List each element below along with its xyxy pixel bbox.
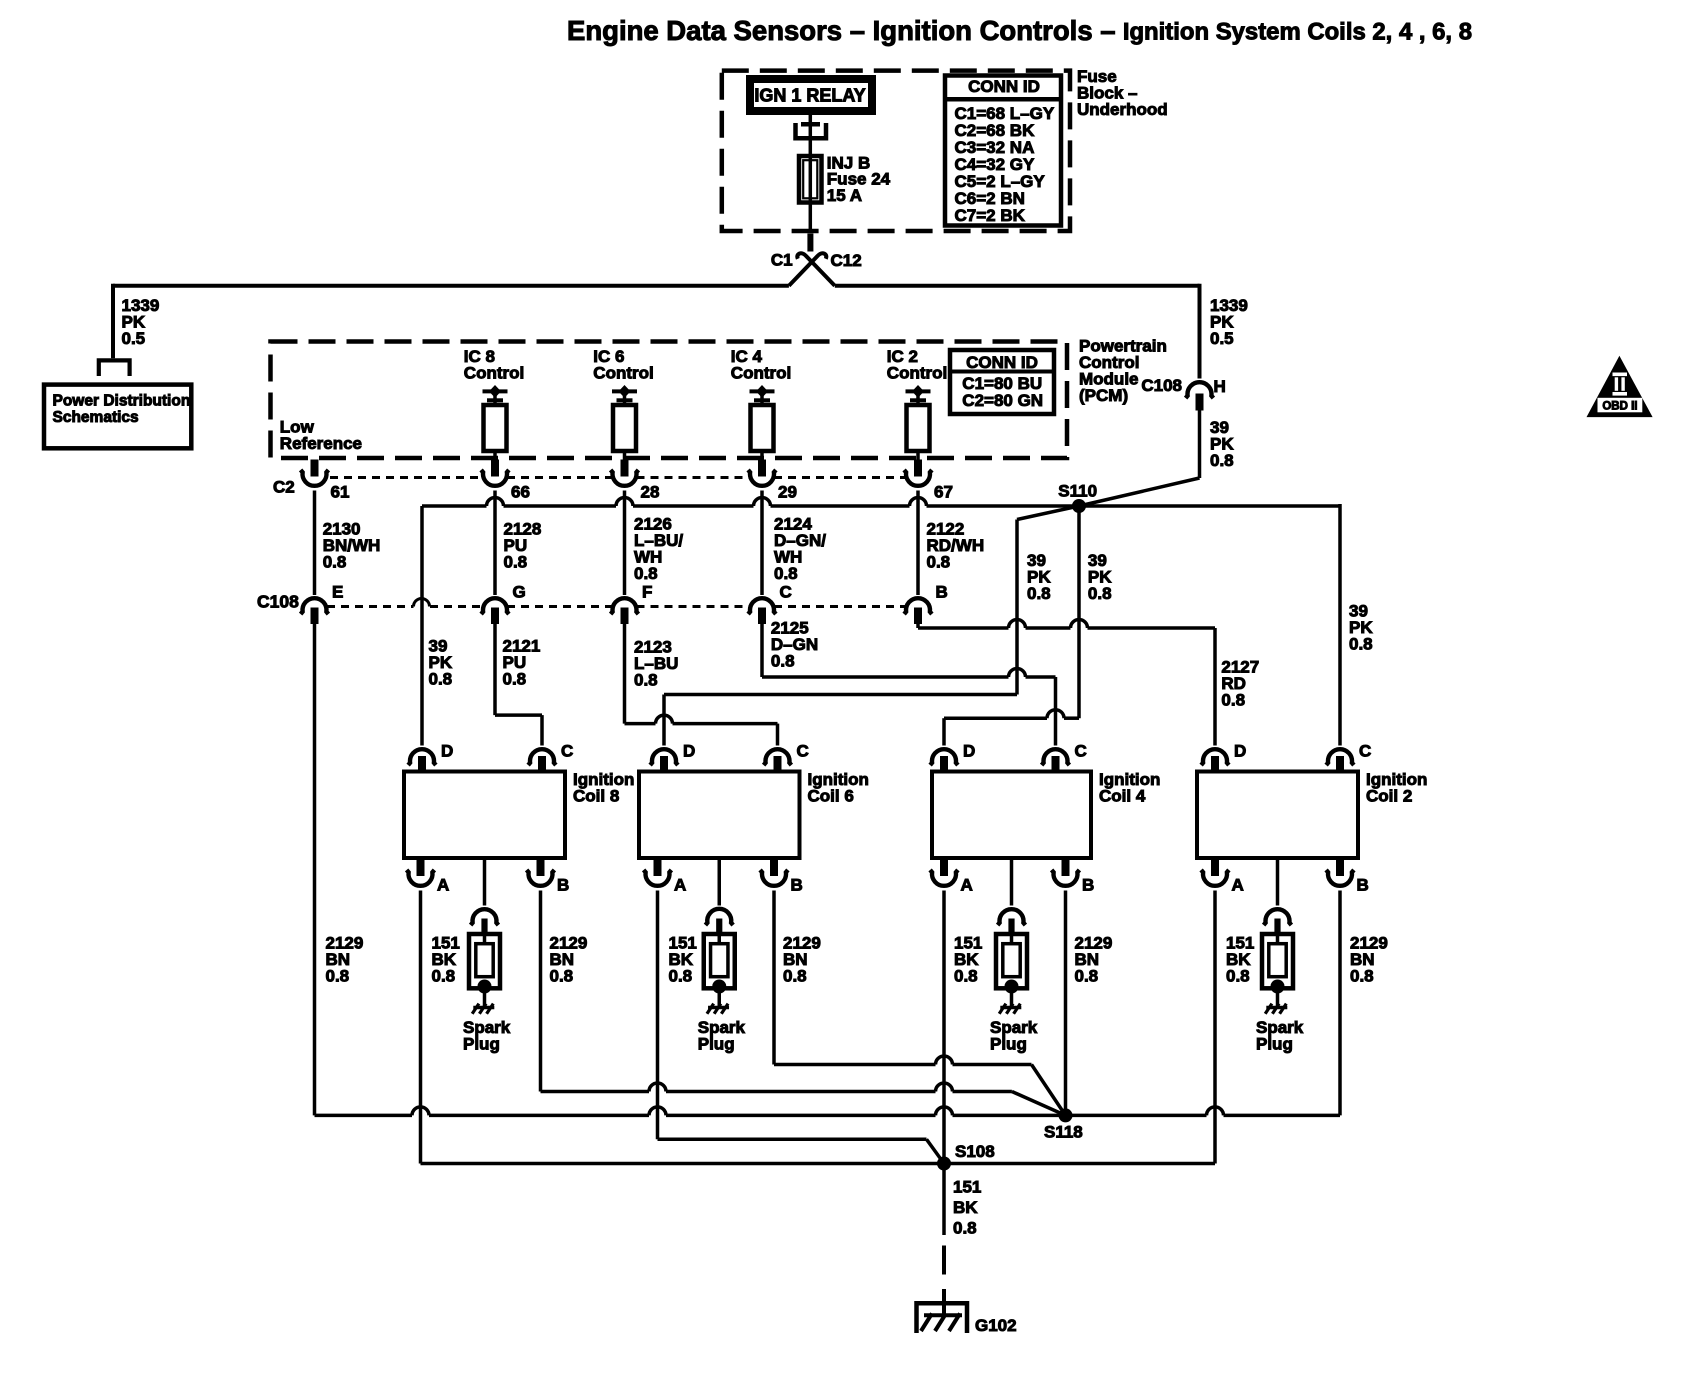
svg-text:OBD II: OBD II — [1602, 401, 1637, 413]
svg-text:B: B — [791, 875, 803, 894]
svg-text:0.8: 0.8 — [634, 671, 658, 690]
svg-text:H: H — [1214, 377, 1226, 396]
svg-text:C: C — [561, 741, 573, 760]
svg-text:CONN ID: CONN ID — [968, 77, 1040, 96]
svg-text:C12: C12 — [831, 251, 862, 270]
svg-text:C7=2 BK: C7=2 BK — [955, 206, 1026, 225]
svg-text:Control: Control — [464, 364, 524, 383]
svg-text:Schematics: Schematics — [53, 409, 139, 426]
svg-text:0.8: 0.8 — [432, 967, 456, 986]
svg-text:61: 61 — [331, 483, 350, 502]
svg-text:B: B — [1357, 875, 1369, 894]
svg-text:B: B — [557, 875, 569, 894]
svg-text:15 A: 15 A — [827, 186, 862, 205]
svg-text:0.5: 0.5 — [1210, 329, 1234, 348]
svg-text:C: C — [1075, 741, 1087, 760]
svg-text:Plug: Plug — [1256, 1035, 1293, 1054]
svg-text:Ignition System Coils 2, 4 , 6: Ignition System Coils 2, 4 , 6, 8 — [1123, 19, 1472, 46]
svg-text:0.8: 0.8 — [1221, 691, 1245, 710]
svg-text:Plug: Plug — [698, 1035, 735, 1054]
svg-text:0.8: 0.8 — [771, 652, 795, 671]
svg-text:0.8: 0.8 — [429, 670, 453, 689]
svg-text:D: D — [1234, 741, 1246, 760]
svg-text:0.8: 0.8 — [323, 553, 347, 572]
svg-text:S108: S108 — [955, 1142, 995, 1161]
svg-text:C1: C1 — [771, 251, 793, 270]
svg-text:A: A — [1232, 875, 1244, 894]
svg-text:A: A — [961, 875, 973, 894]
svg-text:0.8: 0.8 — [953, 1219, 977, 1238]
svg-text:Control: Control — [731, 364, 791, 383]
svg-text:C2=80 GN: C2=80 GN — [962, 391, 1043, 410]
svg-text:C: C — [797, 741, 809, 760]
svg-text:0.5: 0.5 — [122, 329, 146, 348]
svg-text:Power Distribution: Power Distribution — [53, 393, 191, 410]
svg-text:D: D — [683, 741, 695, 760]
svg-text:0.8: 0.8 — [503, 670, 527, 689]
svg-text:C: C — [780, 582, 792, 601]
svg-text:E: E — [332, 582, 343, 601]
svg-text:G102: G102 — [975, 1316, 1017, 1335]
svg-text:IGN 1 RELAY: IGN 1 RELAY — [754, 85, 865, 105]
svg-text:C: C — [1359, 741, 1371, 760]
svg-text:0.8: 0.8 — [1075, 967, 1099, 986]
svg-text:Engine Data Sensors – Ignition: Engine Data Sensors – Ignition Controls … — [567, 15, 1116, 46]
svg-text:0.8: 0.8 — [1210, 451, 1234, 470]
svg-text:0.8: 0.8 — [504, 553, 528, 572]
svg-text:28: 28 — [641, 483, 660, 502]
svg-text:(PCM): (PCM) — [1079, 386, 1128, 405]
svg-text:Reference: Reference — [280, 434, 362, 453]
svg-text:Coil 4: Coil 4 — [1099, 787, 1146, 806]
svg-text:0.8: 0.8 — [669, 967, 693, 986]
svg-text:D: D — [441, 741, 453, 760]
svg-text:Underhood: Underhood — [1077, 100, 1168, 119]
svg-text:Coil 2: Coil 2 — [1366, 787, 1412, 806]
svg-text:0.8: 0.8 — [1226, 967, 1250, 986]
svg-text:0.8: 0.8 — [1088, 584, 1112, 603]
svg-text:0.8: 0.8 — [326, 967, 350, 986]
svg-text:CONN ID: CONN ID — [966, 353, 1038, 372]
svg-text:29: 29 — [778, 483, 797, 502]
svg-text:Control: Control — [593, 364, 653, 383]
svg-text:0.8: 0.8 — [927, 553, 951, 572]
svg-text:0.8: 0.8 — [634, 564, 658, 583]
svg-text:0.8: 0.8 — [1349, 635, 1373, 654]
svg-text:0.8: 0.8 — [783, 967, 807, 986]
svg-text:Plug: Plug — [990, 1035, 1027, 1054]
svg-text:D: D — [963, 741, 975, 760]
svg-text:0.8: 0.8 — [954, 967, 978, 986]
svg-text:Control: Control — [887, 364, 947, 383]
svg-text:B: B — [1082, 875, 1094, 894]
svg-text:66: 66 — [511, 483, 530, 502]
svg-text:0.8: 0.8 — [1350, 967, 1374, 986]
svg-text:0.8: 0.8 — [550, 967, 574, 986]
svg-text:S118: S118 — [1044, 1123, 1083, 1142]
svg-text:F: F — [642, 582, 652, 601]
svg-text:Coil 8: Coil 8 — [573, 787, 619, 806]
svg-text:0.8: 0.8 — [774, 564, 798, 583]
svg-text:B: B — [936, 582, 948, 601]
svg-text:A: A — [437, 875, 449, 894]
svg-text:C2: C2 — [273, 478, 295, 497]
svg-text:S110: S110 — [1058, 482, 1097, 501]
svg-text:67: 67 — [934, 483, 953, 502]
svg-text:C108: C108 — [257, 592, 299, 612]
svg-text:Coil 6: Coil 6 — [808, 787, 854, 806]
svg-text:G: G — [513, 582, 526, 601]
svg-text:Plug: Plug — [463, 1035, 500, 1054]
svg-text:A: A — [674, 875, 686, 894]
svg-text:C108: C108 — [1141, 376, 1182, 395]
svg-text:151: 151 — [953, 1178, 981, 1197]
svg-text:0.8: 0.8 — [1027, 584, 1051, 603]
svg-text:BK: BK — [953, 1198, 978, 1217]
